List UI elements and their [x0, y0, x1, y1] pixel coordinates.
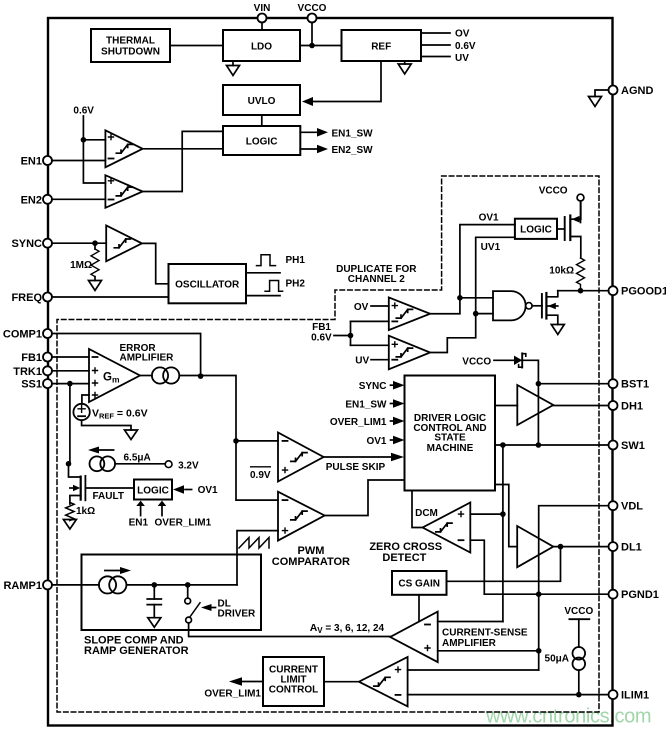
svg-text:OV1: OV1	[198, 485, 218, 496]
transistor FAULT	[69, 464, 86, 504]
wire CS minus input	[438, 621, 503, 623]
pin SS1	[43, 379, 89, 388]
svg-text:ILIM1: ILIM1	[621, 690, 649, 702]
svg-text:OSCILLATOR: OSCILLATOR	[175, 280, 240, 291]
arrow EN1 into fault logic	[136, 501, 145, 516]
wire NAND to NMOS gate	[532, 305, 542, 307]
junction BST1 node	[536, 381, 542, 387]
svg-text:CS GAIN: CS GAIN	[398, 579, 440, 590]
driver high side	[495, 385, 553, 425]
wire ramp to PWM input	[237, 531, 278, 585]
junction CS plus PGND	[536, 648, 542, 654]
pin FB1	[43, 353, 89, 362]
svg-text:PH1: PH1	[286, 255, 306, 266]
wire to pulse skip comparator	[236, 440, 278, 442]
svg-text:LOGIC: LOGIC	[137, 486, 169, 497]
svg-text:UV: UV	[355, 356, 369, 367]
svg-text:LOGIC: LOGIC	[520, 225, 552, 236]
junction UV1 to NAND	[473, 311, 479, 317]
comparator SYNC	[106, 226, 142, 262]
svg-text:FB1: FB1	[312, 322, 331, 333]
junction 10k PGOOD	[578, 288, 584, 294]
svg-text:SHUTDOWN: SHUTDOWN	[101, 47, 160, 58]
label 0.9V with overline	[250, 467, 271, 481]
svg-text:FAULT: FAULT	[93, 491, 124, 502]
svg-text:CURRENT-SENSE: CURRENT-SENSE	[442, 628, 528, 639]
pin ILIM1	[408, 690, 618, 699]
terminal VCCO 50uA	[569, 619, 589, 647]
wire LDO to REF	[300, 45, 342, 47]
LOGIC block top	[223, 126, 300, 155]
wire VCCO boost diode	[494, 359, 514, 361]
junction FB1 node	[348, 333, 354, 339]
svg-text:AMPLIFIER: AMPLIFIER	[442, 638, 497, 649]
wire REF to UVLO	[302, 61, 381, 106]
svg-text:BST1: BST1	[621, 379, 649, 391]
wire FB1 to OV UV comparators	[334, 321, 389, 345]
pin COMP1	[43, 329, 201, 376]
svg-text:OVER_LIM1: OVER_LIM1	[330, 417, 387, 428]
ground 1k	[63, 520, 76, 530]
op-amp error amplifier Gm	[89, 349, 140, 402]
pin SYNC	[43, 239, 106, 248]
svg-text:FREQ: FREQ	[11, 292, 42, 304]
wire NAND input A	[460, 297, 493, 299]
svg-text:CHANNEL 2: CHANNEL 2	[348, 274, 405, 285]
svg-text:EN1: EN1	[21, 156, 42, 168]
svg-text:PGOOD1: PGOOD1	[621, 286, 666, 298]
wire PGND sense down	[538, 594, 540, 670]
wire UV output to UV1	[430, 237, 515, 352]
wire UV label input	[371, 359, 389, 361]
svg-text:SW1: SW1	[621, 440, 645, 452]
svg-text:OV1: OV1	[366, 436, 386, 447]
svg-text:RAMP1: RAMP1	[3, 580, 42, 592]
svg-text:EN1_SW: EN1_SW	[345, 399, 387, 410]
arrow DL driver	[201, 604, 216, 611]
wire thermal shutdown to LDO	[170, 45, 223, 47]
LDO block	[223, 30, 300, 61]
svg-text:6.5μA: 6.5μA	[124, 453, 151, 464]
pin PGND1	[484, 590, 617, 599]
svg-text:MACHINE: MACHINE	[427, 443, 474, 454]
pin VCCO top	[308, 14, 317, 46]
svg-text:LOGIC: LOGIC	[246, 137, 278, 148]
arrow EN1_SW input	[391, 399, 405, 408]
comparator PWM	[278, 492, 325, 541]
wire DCM output to driver logic	[412, 491, 423, 528]
gate NAND	[493, 291, 532, 320]
svg-text:VIN: VIN	[254, 3, 271, 14]
pin DH1	[553, 401, 617, 410]
svg-text:DRIVER: DRIVER	[218, 608, 257, 619]
arrow ramp current direction	[105, 567, 131, 574]
svg-text:LDO: LDO	[251, 42, 272, 53]
junction SS1 to fault node	[69, 384, 71, 464]
current limit control block	[263, 657, 324, 706]
arrow 6.5uA direction	[88, 447, 114, 454]
current source 50uA	[573, 647, 586, 695]
current source ramp	[99, 576, 127, 593]
wire UVLO to LOGIC	[261, 115, 263, 126]
svg-text:EN2: EN2	[21, 194, 42, 206]
thermal shutdown block	[91, 29, 170, 62]
junction 6.5uA node	[66, 461, 72, 467]
svg-text:OVER_LIM1: OVER_LIM1	[155, 518, 212, 529]
wire REF 0.6V output	[421, 44, 450, 46]
ground REF	[398, 61, 411, 74]
wire error amp output to comparators	[179, 376, 278, 501]
svg-text:1kΩ: 1kΩ	[76, 506, 95, 517]
svg-text:EN1: EN1	[129, 518, 149, 529]
comparator current limit	[359, 657, 408, 706]
svg-text:VCCO: VCCO	[539, 186, 568, 197]
pin BST1	[538, 379, 617, 388]
driver low side	[517, 526, 553, 567]
current source 6.5uA	[90, 456, 116, 471]
capacitor ramp	[147, 585, 161, 618]
svg-text:TRK1: TRK1	[13, 366, 42, 378]
source VREF	[73, 404, 89, 420]
svg-text:EN2_SW: EN2_SW	[332, 145, 374, 156]
wire PH2 output	[246, 295, 280, 297]
logic block fault	[134, 480, 172, 500]
svg-text:0.6V: 0.6V	[311, 333, 332, 344]
wire CS gain to amp	[418, 595, 420, 621]
current source error amp output	[152, 367, 179, 383]
svg-text:VCCO: VCCO	[298, 3, 327, 14]
svg-text:10kΩ: 10kΩ	[549, 266, 574, 277]
pulse symbol PH1	[257, 255, 276, 266]
wire NAND input B	[476, 313, 493, 315]
ground ramp cap	[148, 618, 161, 628]
resistor 1M	[91, 243, 99, 280]
svg-text:PGND1: PGND1	[621, 589, 659, 601]
svg-text:OV1: OV1	[479, 212, 499, 223]
pin VIN	[258, 14, 267, 31]
junction driver rail PGND	[536, 591, 542, 597]
svg-text:SS1: SS1	[21, 379, 42, 391]
svg-text:COMPARATOR: COMPARATOR	[272, 556, 350, 568]
junction OV1 to NAND	[457, 295, 463, 301]
svg-text:THERMAL: THERMAL	[106, 36, 155, 47]
junction 50uA ILIM	[576, 692, 582, 698]
ground VREF	[125, 430, 138, 440]
svg-text:UV1: UV1	[481, 242, 501, 253]
arrow OV1 input	[391, 436, 405, 445]
pin TRK1	[43, 366, 89, 375]
terminal 3.2V	[165, 461, 172, 468]
arrow OVER_LIM1 input	[391, 417, 405, 426]
svg-text:SYNC: SYNC	[359, 381, 387, 392]
junction COMP1 to error amp output	[198, 373, 204, 379]
svg-text:OV: OV	[354, 302, 369, 313]
pin AGND	[595, 86, 618, 97]
wire ILIM comparator plus	[408, 669, 539, 671]
arrow OVER_LIM1 into fault logic	[158, 501, 167, 516]
diode boost schottky	[514, 353, 538, 445]
pin DL1	[553, 542, 617, 551]
wire SW sense down	[502, 445, 504, 622]
svg-text:REF: REF	[371, 42, 391, 53]
wire OV1 into fault logic	[173, 485, 192, 494]
wire EN2 comparator output	[143, 131, 223, 191]
UVLO block	[223, 85, 300, 115]
comparator EN2	[105, 175, 142, 208]
transistor PMOS pgood	[557, 201, 581, 258]
wire EN1_SW output	[300, 128, 328, 137]
svg-text:OV: OV	[455, 29, 470, 40]
wire switch to CS amp output	[189, 623, 391, 637]
svg-text:0.6V: 0.6V	[73, 106, 94, 117]
REF block	[342, 30, 422, 61]
svg-text:VCCO: VCCO	[564, 606, 593, 617]
junction DCM plus	[500, 511, 506, 517]
wire ILIM comp output	[324, 681, 359, 683]
svg-text:CONTROL: CONTROL	[269, 684, 318, 695]
svg-text:DETECT: DETECT	[382, 552, 426, 564]
svg-text:VCCO: VCCO	[462, 356, 491, 367]
svg-text:DL1: DL1	[621, 542, 642, 554]
comparator UV	[389, 336, 430, 370]
wire VREF to error amp	[82, 395, 89, 404]
slope comp block	[82, 555, 262, 631]
resistor 1k	[66, 503, 74, 521]
svg-text:DCM: DCM	[415, 508, 438, 519]
junction pulse-skip branch	[233, 438, 239, 444]
svg-text:OVER_LIM1: OVER_LIM1	[204, 688, 261, 699]
wire 0.6V to EN comparators	[83, 116, 105, 183]
wire DL sense to CS gain	[447, 547, 561, 582]
svg-text:VDL: VDL	[621, 501, 643, 513]
svg-text:AMPLIFIER: AMPLIFIER	[120, 353, 175, 364]
wire pulse skip output	[324, 453, 404, 462]
svg-text:UVLO: UVLO	[248, 96, 276, 107]
junction VCCO-LDO-REF	[309, 43, 315, 49]
logic block PGOOD	[515, 219, 557, 239]
junction SS1 node	[67, 381, 73, 387]
svg-text:0.6V: 0.6V	[455, 41, 476, 52]
oscillator block	[169, 264, 247, 303]
svg-text:3.2V: 3.2V	[178, 460, 199, 471]
wire driver logic to low driver	[495, 485, 517, 547]
svg-text:AGND: AGND	[621, 85, 653, 97]
wire SYNC comparator to oscillator	[142, 243, 169, 283]
wire to 3.2V	[115, 463, 165, 465]
ground AGND	[589, 97, 602, 107]
svg-text:SYNC: SYNC	[11, 238, 42, 250]
pin SW1	[495, 441, 618, 450]
wire FAULT gate to logic	[85, 487, 134, 489]
svg-text:DH1: DH1	[621, 401, 643, 413]
junction DL sense	[558, 544, 564, 550]
pin VDL	[539, 501, 618, 594]
wire OV output to OV1	[430, 225, 515, 314]
wire error amp output	[140, 375, 152, 377]
junction SYNC node	[92, 240, 98, 246]
terminal VCCO pgood	[577, 194, 584, 222]
junction driver rail SW	[536, 442, 542, 448]
pulse symbol PH2	[265, 281, 283, 292]
resistor 10k	[577, 258, 585, 291]
arrow SYNC input	[391, 381, 405, 390]
pin FREQ	[43, 293, 169, 302]
svg-text:EN1_SW: EN1_SW	[332, 128, 374, 139]
wire REF OV output	[421, 32, 450, 34]
wire DCM minus to PGND	[470, 540, 484, 594]
sawtooth symbol	[239, 538, 269, 549]
junction ramp cap	[152, 582, 158, 588]
comparator EN1	[105, 130, 142, 167]
svg-text:0.9V: 0.9V	[250, 470, 271, 481]
junction ramp switch	[185, 582, 191, 588]
switch DL driver	[185, 585, 200, 623]
svg-text:50μA: 50μA	[545, 653, 569, 664]
svg-text:RAMP GENERATOR: RAMP GENERATOR	[84, 645, 189, 657]
wire REF UV output	[421, 56, 450, 58]
wire EN1 comparator output	[143, 148, 223, 150]
svg-text:www.cntronics.com: www.cntronics.com	[485, 705, 651, 727]
wire PH1 output	[246, 272, 280, 274]
wire OV label input	[371, 305, 389, 307]
comparator OV	[389, 297, 430, 330]
pin EN2	[43, 195, 105, 204]
pin PGOOD1	[558, 286, 618, 295]
ground LDO	[227, 61, 240, 76]
wire CS plus input	[438, 650, 539, 652]
svg-text:1MΩ: 1MΩ	[70, 260, 92, 271]
pin EN1	[43, 156, 105, 165]
comparator pulse skip 0.9V	[278, 433, 324, 482]
svg-text:PULSE SKIP: PULSE SKIP	[326, 462, 386, 473]
arrow OVER_LIM1 output	[229, 677, 263, 686]
svg-text:PH2: PH2	[286, 278, 306, 289]
driver logic state machine block	[405, 376, 496, 491]
wire VREF to ground	[82, 420, 131, 430]
channel 1 dashed boundary	[57, 176, 599, 712]
svg-text:COMP1: COMP1	[3, 329, 42, 341]
pin RAMP1	[43, 580, 99, 589]
ground 1M	[89, 281, 102, 291]
junction SW sense	[500, 442, 506, 448]
ground NMOS pgood	[551, 325, 564, 335]
wire ramp node	[126, 584, 237, 586]
comparator DCM zero cross	[423, 503, 471, 553]
svg-text:UV: UV	[455, 53, 469, 64]
wire EN2_SW output	[300, 145, 328, 154]
op-amp current sense	[390, 612, 438, 663]
wire PWM output to driver logic	[325, 480, 405, 516]
wire DCM plus input	[470, 513, 503, 515]
transistor NMOS pgood	[542, 291, 558, 325]
CS gain block	[392, 571, 447, 595]
junction 0.6V node	[81, 137, 87, 143]
svg-text:FB1: FB1	[21, 352, 42, 364]
